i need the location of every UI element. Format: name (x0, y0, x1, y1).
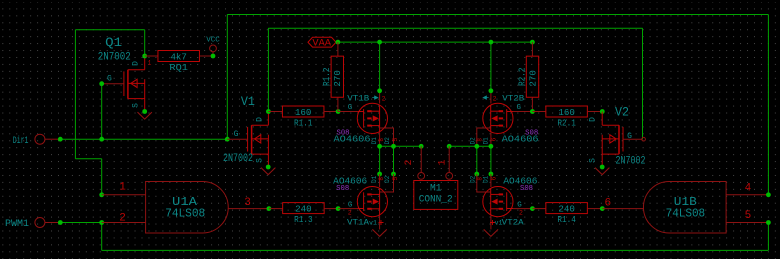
svg-text:S: S (589, 158, 598, 163)
pin U1B 4 (726, 194, 768, 196)
pin mark VT1A nc (379, 220, 384, 225)
pin VT1A gate (338, 208, 357, 210)
wire out2 h (449, 145, 491, 147)
svg-text:160: 160 (558, 107, 575, 118)
pin R1.4 left (532, 208, 546, 210)
svg-text:R1.3: R1.3 (294, 214, 313, 225)
svg-text:D: D (589, 117, 598, 122)
mosfet VT2B AO4606 (483, 103, 513, 133)
pin VT1A aux (380, 174, 394, 192)
svg-text:PWM1: PWM1 (5, 218, 29, 230)
junction U1B pin4 (766, 192, 771, 197)
junction U1A out (267, 206, 272, 211)
pin RQ1 left (145, 55, 158, 57)
pin R1.2 bottom (337, 97, 339, 111)
wire VAA to VT1B (379, 42, 381, 91)
wire to V1 drain (267, 28, 269, 111)
svg-text:VAA: VAA (312, 39, 331, 50)
junction VAA-R2.2 (530, 40, 535, 45)
svg-text:AO4606: AO4606 (334, 135, 371, 145)
svg-text:S08: S08 (520, 185, 533, 193)
pin U1B 6 (602, 208, 643, 210)
node V1 source (266, 165, 271, 170)
pin R2.2 bottom (531, 97, 533, 111)
wire step h (75, 158, 101, 160)
junction VT2B drain (489, 88, 494, 93)
svg-text:R2.2: R2.2 (516, 67, 527, 86)
svg-text:Dir1: Dir1 (13, 135, 29, 147)
resistor R1.3 (283, 203, 325, 226)
wire PWM1 down (101, 223, 103, 251)
svg-text:240: 240 (295, 204, 312, 215)
svg-text:G: G (517, 202, 522, 210)
junction fet row (474, 172, 479, 177)
svg-text:VT1A: VT1A (347, 219, 369, 228)
pin mark VT1B in (372, 96, 378, 99)
svg-text:2: 2 (493, 95, 497, 102)
svg-text:270: 270 (332, 70, 343, 87)
junction out row (474, 144, 479, 149)
pin R1.3 left (269, 208, 283, 210)
junction Q1 drain (142, 54, 147, 59)
svg-text:G: G (348, 202, 353, 210)
svg-text:74LS08: 74LS08 (165, 206, 205, 220)
svg-text:VT2B: VT2B (502, 95, 524, 104)
pin Dir1 (45, 138, 60, 140)
pin mark VT2B in (483, 96, 488, 99)
junction U1B pin6 (600, 206, 605, 211)
pin R1.2 top (337, 42, 339, 56)
wire out1 v2 (393, 146, 395, 174)
svg-text:5: 5 (392, 137, 399, 141)
svg-text:2N7002: 2N7002 (98, 51, 131, 63)
svg-text:270: 270 (527, 70, 538, 87)
wire Dir1 top rail (227, 14, 768, 16)
node Q1 source (142, 109, 147, 114)
svg-text:R2.1: R2.1 (557, 118, 576, 129)
resistor R1.2 (321, 56, 343, 97)
gate U1B 74LS08 (643, 182, 726, 234)
svg-text:D1: D1 (483, 137, 490, 145)
pin VT2A gate (513, 208, 532, 210)
pin mark VT2A nc (490, 220, 495, 225)
wire Q1 drain up (144, 30, 146, 56)
wire to U1A pin1 (101, 159, 103, 195)
svg-text:5: 5 (392, 176, 399, 180)
junction out row (447, 144, 452, 149)
pin R1.4 right (587, 208, 602, 210)
pin M1 1 (448, 146, 450, 172)
svg-text:D1: D1 (483, 175, 490, 183)
wire to V2 gate (642, 28, 644, 139)
svg-text:1: 1 (148, 60, 152, 67)
wire out2 v1 (476, 146, 478, 174)
pin R2.1 right (587, 111, 602, 113)
pin R1.3 right (324, 208, 338, 210)
mosfet VT1A AO4606 (357, 187, 387, 217)
pin VT2B gate (513, 111, 532, 113)
pin U1A 2 (102, 222, 146, 224)
pin VT2A source (490, 216, 492, 230)
svg-text:CONN_2: CONN_2 (419, 195, 453, 206)
wire out2 v2 (490, 146, 492, 174)
pin RQ1 right (200, 55, 214, 57)
pin VT2A aux (477, 174, 491, 192)
junction U1A pin1 (99, 192, 104, 197)
svg-text:2N7002: 2N7002 (616, 156, 646, 168)
gate U1A 74LS08 (146, 182, 229, 234)
junction out row (391, 144, 396, 149)
svg-text:2: 2 (382, 95, 386, 102)
svg-text:S08: S08 (336, 185, 349, 193)
svg-text:160: 160 (295, 107, 312, 118)
pin PWM1 (45, 222, 60, 224)
svg-text:2: 2 (348, 210, 352, 217)
power VCC (210, 45, 217, 56)
pin U1A 3 (228, 208, 269, 210)
junction VAA-VT2B (489, 40, 494, 45)
pin R1.1 left (268, 111, 282, 113)
junction fet row (377, 172, 382, 177)
svg-text:R1.1: R1.1 (294, 118, 313, 129)
ground V2 (595, 168, 609, 175)
svg-text:V1: V1 (241, 95, 255, 109)
pin VT1B gate (338, 111, 357, 113)
wire to U1B pin5 (767, 223, 769, 251)
pin Q1 gate lead (102, 83, 124, 85)
svg-text:G: G (348, 104, 353, 112)
svg-text:D2: D2 (470, 137, 477, 145)
port PWM1 (35, 218, 45, 228)
pin VT1B top (379, 91, 381, 104)
pin VT2A top (490, 174, 492, 187)
resistor RQ1 (158, 51, 200, 74)
pin R2.1 left (532, 111, 546, 113)
wire cross-couple rail (268, 27, 642, 29)
resistor R1.4 (546, 203, 588, 226)
svg-text:4k7: 4k7 (170, 51, 187, 62)
wire PWM1 bottom rail (102, 249, 769, 251)
svg-text:S: S (255, 158, 264, 163)
pin V2 gate lead (623, 138, 643, 140)
svg-text:R1.4: R1.4 (557, 214, 576, 225)
connector M1 CONN_2 (414, 173, 458, 210)
svg-text:VT1B: VT1B (347, 95, 369, 104)
svg-text:AO4606: AO4606 (502, 135, 539, 145)
junction out row (419, 144, 424, 149)
junction PWM1 (58, 220, 63, 225)
junction PWM1-U1A (99, 220, 104, 225)
svg-text:v1: v1 (495, 220, 503, 227)
wire rail to U1B pin4 (767, 15, 769, 195)
svg-text:S: S (132, 103, 141, 108)
junction RQ1-VCC (211, 54, 216, 59)
junction VT1B drain (377, 88, 382, 93)
junction Dir1-Q1gate (99, 137, 104, 142)
junction VT1B gate (336, 109, 341, 114)
svg-text:5: 5 (745, 210, 752, 222)
ground VT1A (372, 229, 386, 236)
svg-text:2: 2 (519, 210, 523, 217)
junction Q1 gate (99, 81, 104, 86)
svg-text:G: G (516, 104, 521, 112)
pin VT2B aux (477, 128, 491, 146)
pin V1 gate lead (227, 138, 247, 140)
net label VAA (308, 37, 336, 49)
svg-text:D2: D2 (384, 137, 391, 145)
svg-text:RQ1: RQ1 (169, 62, 188, 73)
wire PWM1 row (60, 222, 101, 224)
junction U1B pin5 (766, 220, 771, 225)
ground Q1 (138, 112, 152, 119)
mosfet VT2A AO4606 (483, 187, 513, 217)
ground VT2A (484, 229, 498, 236)
transistor V2 2N7002 (602, 112, 623, 168)
svg-text:240: 240 (558, 204, 575, 215)
pin VT1B bottom (379, 132, 381, 146)
svg-text:v1: v1 (369, 220, 377, 227)
wire Q1 drain loop left (74, 30, 76, 159)
svg-text:D2: D2 (384, 175, 391, 183)
wire Dir1 row (60, 138, 227, 140)
pin VT2B bottom (490, 132, 492, 146)
svg-text:V2: V2 (615, 105, 629, 119)
svg-text:6: 6 (491, 137, 498, 141)
transistor V1 2N7002 (248, 112, 269, 168)
svg-text:3: 3 (244, 197, 251, 209)
svg-text:74LS08: 74LS08 (666, 207, 706, 221)
junction out row (377, 144, 382, 149)
wire VAA to VT2B (490, 42, 492, 91)
junction V2 drain (600, 109, 605, 114)
pin VT1B aux (380, 128, 394, 146)
resistor R2.1 (546, 106, 588, 129)
pin R2.2 top (531, 42, 533, 56)
svg-text:R1.2: R1.2 (321, 67, 332, 86)
pin M1 2 (420, 146, 422, 172)
svg-text:G: G (627, 132, 632, 141)
svg-text:Q1: Q1 (105, 35, 122, 50)
junction fet row (391, 172, 396, 177)
svg-text:2N7002: 2N7002 (223, 153, 253, 165)
svg-text:D: D (132, 61, 141, 66)
wire out1 h (380, 145, 422, 147)
wire VAA rail (336, 41, 532, 43)
svg-text:D: D (255, 117, 264, 122)
svg-text:D2: D2 (470, 175, 477, 183)
svg-text:2: 2 (119, 213, 126, 225)
svg-text:2: 2 (404, 159, 415, 165)
svg-text:G: G (234, 130, 239, 139)
svg-text:6: 6 (491, 176, 498, 180)
pin U1B 5 (726, 222, 768, 224)
junction VT2B gate node (530, 109, 535, 114)
resistor R1.1 (282, 106, 324, 129)
svg-text:4: 4 (745, 182, 752, 194)
wire Q1 drain loop top (75, 29, 144, 31)
svg-text:VCC: VCC (206, 37, 220, 45)
svg-text:G: G (107, 74, 112, 83)
transistor Q1 body (124, 56, 145, 112)
svg-text:1: 1 (438, 159, 449, 165)
resistor R2.2 (516, 56, 538, 97)
junction VAA-R1.2 (336, 40, 341, 45)
pin VT2B top (490, 91, 492, 104)
pin R1.1 right (324, 111, 338, 113)
pin VT1A top (379, 174, 381, 187)
mosfet VT1B AO4606 (357, 103, 387, 133)
svg-text:D1: D1 (371, 175, 378, 183)
ground V1 (261, 168, 275, 175)
junction fet row (489, 172, 494, 177)
pin U1A 1 (102, 194, 146, 196)
node V2 source (600, 165, 605, 170)
svg-text:M1: M1 (430, 184, 442, 195)
pin VT1A source (379, 216, 381, 230)
svg-text:VT2A: VT2A (502, 219, 524, 228)
junction out row (489, 144, 494, 149)
junction VAA-VT1B (377, 40, 382, 45)
wire rail to V1 gate (226, 15, 228, 140)
wire Dir1 to Q1 gate (101, 84, 103, 140)
junction VT2A gate node (530, 206, 535, 211)
junction V1 drain (266, 109, 271, 114)
svg-text:D1: D1 (371, 137, 378, 145)
port Dir1 (35, 134, 45, 144)
svg-text:1: 1 (119, 182, 126, 194)
svg-text:6: 6 (604, 198, 611, 210)
wire out1 v1 (379, 146, 381, 174)
junction Dir1-V1gate (225, 137, 230, 142)
junction Dir1 (58, 137, 63, 142)
junction VT1A gate (336, 206, 341, 211)
transistor Q1 2N7002 (0, 0, 1, 1)
pin end V2 gate (642, 137, 646, 141)
